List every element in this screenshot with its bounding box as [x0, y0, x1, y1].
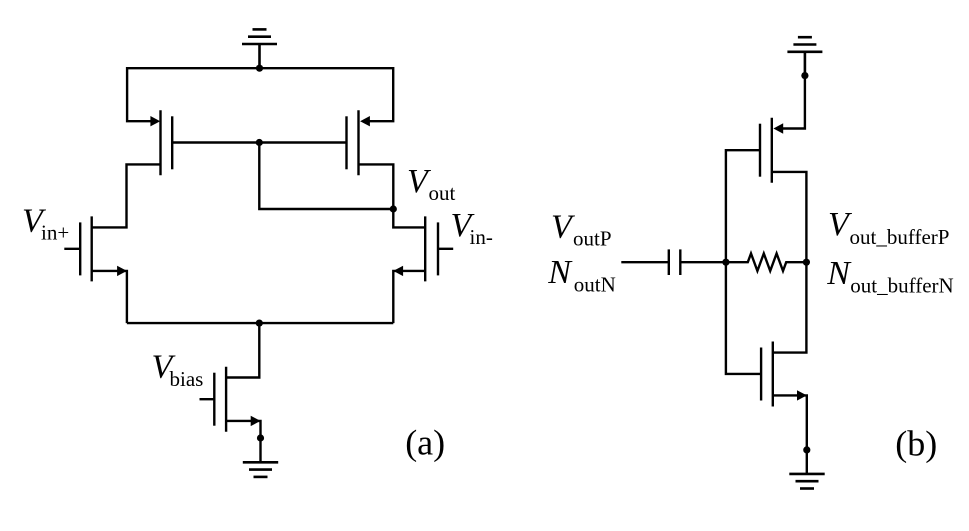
wire tail rail [127, 322, 393, 324]
NMOS M3 [80, 216, 92, 281]
PMOS M2 [347, 110, 359, 175]
wire gate rail M1-M2 [172, 141, 346, 143]
svg-text:in-: in- [470, 225, 493, 249]
node supply rail junction (a) [256, 65, 263, 72]
capacitor C1 [669, 249, 681, 275]
wire Vout node to M4 drain [393, 209, 425, 227]
M7 source wire to ground [773, 395, 807, 474]
label V_in+ [22, 202, 69, 244]
node gate junction dot [256, 139, 263, 146]
M3 source wire to tail [92, 271, 127, 323]
node left resistor dot [722, 259, 729, 266]
NMOS M7 [761, 342, 773, 407]
label V_bias [152, 348, 204, 391]
NMOS M4 [425, 216, 438, 281]
node V_out dot [390, 205, 397, 212]
label N_outN [547, 254, 616, 297]
label V_in- [451, 207, 493, 249]
NMOS M5 [214, 367, 226, 432]
wire M2 drain to Vout node [359, 164, 394, 209]
wire left gate rail M6-M7 [726, 150, 761, 374]
svg-text:outN: outN [574, 273, 616, 297]
wire M6 drain to M7 drain (right rail) [772, 172, 807, 353]
supply symbol (a) [242, 29, 277, 68]
svg-text:out: out [429, 181, 456, 205]
wire supply to M6 source [781, 76, 805, 129]
M4 gate lead [438, 248, 453, 250]
M5 gate lead [200, 398, 215, 400]
svg-text:out_bufferN: out_bufferN [850, 273, 953, 297]
M5 source wire to ground [226, 421, 260, 462]
label V_out_bufferP [828, 206, 949, 249]
svg-text:bias: bias [170, 367, 204, 391]
M2 source arrow [360, 116, 370, 126]
node supply junction dot (b) [801, 72, 808, 79]
label N_out_bufferN [826, 255, 954, 298]
ground symbol (b) [789, 474, 824, 489]
svg-text:in+: in+ [41, 220, 69, 244]
supply symbol (b) [787, 37, 822, 75]
wire rail to M2 source [368, 67, 393, 121]
M4 source wire to tail [393, 271, 425, 323]
svg-text:(b): (b) [895, 424, 937, 464]
ground symbol (a) [243, 462, 278, 477]
M6 source arrow [773, 123, 783, 133]
svg-text:N: N [826, 255, 852, 292]
label V_outP [551, 208, 612, 250]
resistor R1 [726, 254, 807, 271]
M5 source arrow [251, 416, 261, 426]
node tail junction dot [256, 320, 263, 327]
PMOS M6 [760, 118, 772, 183]
PMOS M1 [161, 110, 173, 175]
svg-text:out_bufferP: out_bufferP [850, 225, 950, 249]
node ground junction dot (b) [803, 446, 810, 453]
node ground junction dot (a) [257, 434, 264, 441]
M4 source arrow [393, 266, 403, 276]
M1 source arrow [150, 116, 160, 126]
node right resistor dot [803, 259, 810, 266]
wire rail to M1 source [127, 67, 152, 121]
M3 source arrow [117, 266, 127, 276]
M3 gate lead [64, 248, 80, 250]
wire input to capacitor [621, 261, 669, 263]
wire tail to M5 drain [226, 323, 259, 377]
svg-text:N: N [547, 254, 573, 291]
wire capacitor to node [680, 261, 726, 263]
wire gate node to output node [259, 143, 393, 210]
svg-text:outP: outP [573, 226, 612, 250]
svg-text:(a): (a) [405, 423, 445, 463]
label V_out [407, 163, 456, 205]
wire M1 drain to M3 drain [92, 164, 161, 227]
M7 source arrow [797, 390, 807, 400]
wire top supply rail (a) [127, 67, 393, 69]
